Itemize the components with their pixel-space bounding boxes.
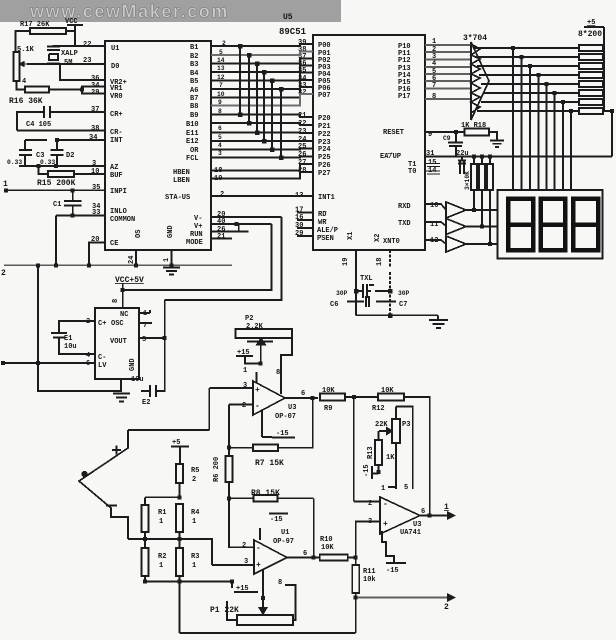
svg-text:UA741: UA741: [400, 529, 421, 537]
wire R9 to R12: [345, 396, 378, 398]
segment drop wire 8: [570, 111, 572, 190]
resistor R11 body: [352, 565, 359, 593]
resistor pack 8*200 bodies: [579, 45, 603, 114]
VOUT vertical down to E2: [156, 338, 165, 391]
svg-text:B4: B4: [190, 70, 198, 78]
ground R18: [490, 141, 504, 148]
wiper to crystal wire: [27, 63, 47, 65]
wire LV pin6 row: [3, 362, 95, 364]
UA741 pin4 to -15: [382, 531, 394, 563]
svg-text:VR1: VR1: [110, 85, 123, 93]
svg-text:X2: X2: [374, 234, 382, 242]
+15 bar P1: [232, 582, 258, 593]
node 2 arrowhead: [448, 595, 454, 601]
svg-text:RESET: RESET: [383, 129, 404, 137]
bridge body: [79, 430, 128, 539]
svg-text:C-: C-: [98, 354, 106, 362]
resistor R18 body: [465, 129, 490, 136]
bottom rail: [180, 632, 356, 634]
ADC left pin numbers: [83, 41, 100, 244]
svg-text:P22: P22: [318, 131, 331, 139]
op-amp UA741 triangle: [380, 497, 420, 534]
svg-text:P17: P17: [398, 93, 411, 101]
svg-text:8: 8: [278, 579, 282, 587]
pin1 pin7 stubs: [139, 310, 152, 323]
ADC pin1 gnd stub: [171, 250, 173, 266]
svg-text:R6 200: R6 200: [213, 457, 221, 482]
svg-text:R16 36K: R16 36K: [9, 97, 43, 106]
svg-text:18: 18: [214, 167, 222, 175]
bridge output dot: [82, 472, 87, 477]
svg-text:B10: B10: [186, 121, 199, 129]
svg-text:1: 1: [243, 367, 247, 375]
R13 top: [378, 431, 380, 440]
svg-text:-15: -15: [276, 430, 289, 438]
U1 pin2 wire: [229, 498, 254, 547]
capacitor C1: [64, 190, 82, 215]
svg-text:P20: P20: [318, 115, 331, 123]
svg-text:10u: 10u: [64, 343, 77, 351]
ADC pin24 stub: [135, 250, 137, 265]
resistor pack 3x10K bodies: [471, 164, 477, 190]
svg-text:2: 2: [86, 318, 90, 326]
resistor R3 body: [176, 548, 183, 576]
3x10K resistor tops: [474, 157, 490, 165]
svg-text:XALP: XALP: [61, 50, 78, 58]
svg-text:P12: P12: [398, 57, 411, 65]
svg-text:-: -: [256, 544, 261, 553]
svg-text:1: 1: [163, 258, 171, 262]
R15 right wire to BUF: [74, 173, 105, 175]
svg-text:5: 5: [218, 134, 222, 141]
R7 wires: [229, 447, 313, 449]
resistor R16 36K body: [25, 87, 49, 93]
svg-text:R7 15K: R7 15K: [255, 459, 284, 468]
driver input wires P10-P17: [425, 44, 471, 46]
svg-text:STA-US: STA-US: [165, 194, 190, 202]
svg-text:6: 6: [301, 390, 305, 398]
wire VR2+: [60, 64, 105, 80]
wire R16 to VR1/VR0: [49, 87, 105, 94]
wire bridge tap to U1 pin3: [180, 539, 213, 565]
svg-text:+15: +15: [237, 349, 250, 357]
resistor R10 body: [320, 555, 348, 561]
svg-text:VCC+5V: VCC+5V: [115, 276, 144, 285]
svg-text:T0: T0: [408, 168, 416, 176]
svg-text:U1: U1: [111, 45, 119, 53]
resistor R15 200K body: [48, 171, 74, 177]
R10 wires: [287, 557, 356, 559]
bus vertical A6-FCL: [280, 89, 282, 158]
svg-text:22K: 22K: [375, 421, 388, 429]
potentiometer 5.1K body: [14, 52, 20, 81]
svg-text:2: 2: [192, 476, 196, 484]
svg-text:30P: 30P: [398, 290, 410, 297]
P3 wiper arrow: [379, 430, 387, 432]
U1 pin4 down: [262, 570, 264, 598]
+5 supply bridge: [171, 447, 189, 465]
svg-text:3: 3: [244, 558, 248, 566]
crystal TXL body: [356, 284, 374, 298]
ADC U4 body: [105, 41, 211, 250]
svg-text:2: 2: [1, 269, 6, 278]
svg-text:B9: B9: [190, 112, 198, 120]
segment wire junction dots: [511, 46, 573, 113]
svg-text:R1: R1: [158, 509, 166, 517]
svg-text:3: 3: [218, 150, 222, 157]
VOUT vertical to V- bracket: [164, 300, 166, 338]
svg-text:6: 6: [303, 550, 307, 558]
svg-text:R5: R5: [191, 467, 199, 475]
svg-text:V+: V+: [194, 223, 202, 231]
P1 left end: [227, 601, 237, 620]
svg-text:8: 8: [276, 369, 280, 377]
svg-text:AZ: AZ: [110, 164, 118, 172]
XTAL1 wire: [389, 250, 391, 315]
labels top-left: [1, 18, 144, 285]
ground bus node2: [4, 264, 232, 266]
U1 pin7 to -15: [259, 528, 261, 540]
resistor R1 body: [142, 505, 149, 532]
svg-text:89C51: 89C51: [279, 27, 307, 37]
wire VOUT pin5: [139, 337, 165, 339]
wire C- pin4: [59, 341, 95, 354]
inverter U6c: [425, 236, 497, 252]
wire B3 to P02: [211, 59, 313, 64]
svg-text:21: 21: [217, 233, 225, 241]
svg-text:19: 19: [214, 175, 222, 183]
U3 output wire: [285, 397, 318, 399]
svg-text:TXD: TXD: [398, 220, 411, 228]
svg-text:-15: -15: [363, 464, 371, 477]
svg-text:R13: R13: [367, 446, 375, 459]
svg-text:MODE: MODE: [186, 239, 203, 247]
svg-text:-15: -15: [270, 516, 283, 524]
svg-text:1: 1: [143, 310, 147, 318]
svg-text:P07: P07: [318, 92, 331, 100]
svg-text:R4: R4: [191, 509, 199, 517]
svg-text:TXL: TXL: [360, 275, 373, 283]
segment drop wire 7: [562, 102, 564, 190]
7-seg digit 2: [541, 199, 566, 251]
-15 bar UA741: [386, 562, 406, 564]
svg-text:INT1: INT1: [318, 194, 335, 202]
svg-text:3: 3: [243, 382, 247, 390]
svg-text:RD: RD: [318, 211, 326, 219]
P3 top wire: [396, 407, 413, 490]
svg-text:B7: B7: [190, 95, 198, 103]
MCU U5 body: [313, 35, 425, 250]
bottom row wire: [145, 576, 232, 582]
capacitor C9: [448, 132, 463, 157]
svg-text:LV: LV: [98, 362, 107, 370]
svg-text:10k: 10k: [363, 576, 376, 584]
junction dots left area: [4, 88, 174, 293]
svg-text:INLO: INLO: [110, 208, 127, 216]
svg-text:WR: WR: [318, 219, 327, 227]
svg-text:CE: CE: [110, 240, 118, 248]
driver array 3*704: [471, 42, 489, 120]
svg-text:ALE/P: ALE/P: [317, 227, 338, 235]
svg-text:VCC: VCC: [65, 18, 78, 26]
segment drop wire 3: [529, 66, 531, 190]
svg-text:E11: E11: [186, 130, 199, 138]
mid row wires: [128, 532, 180, 548]
svg-text:BUF: BUF: [110, 172, 123, 180]
bus vertical B4-E12: [263, 72, 265, 141]
svg-text:10u: 10u: [131, 376, 144, 384]
svg-text:-: -: [383, 500, 388, 509]
R7 feedback vertical: [307, 398, 313, 448]
svg-text:2: 2: [220, 191, 224, 199]
svg-text:R15 200K: R15 200K: [37, 179, 76, 188]
svg-text:6: 6: [86, 360, 90, 368]
capacitor D2 0.33: [51, 140, 64, 166]
P1 right end: [285, 585, 296, 620]
long wire to -in: [354, 397, 380, 502]
R15 left wire: [39, 166, 49, 174]
svg-text:0.33: 0.33: [40, 159, 55, 166]
reset circuit: [425, 129, 504, 157]
svg-text:22u: 22u: [456, 150, 469, 158]
svg-text:D0: D0: [111, 63, 119, 71]
ADC MODE stub: [211, 238, 232, 240]
svg-text:VR0: VR0: [110, 93, 123, 101]
U1 pin3 wire: [212, 564, 254, 566]
svg-text:B8: B8: [190, 103, 198, 111]
svg-text:HBEN: HBEN: [173, 169, 190, 177]
svg-text:LBEN: LBEN: [173, 177, 190, 185]
-15 bar U3: [272, 437, 295, 439]
potentiometer P1 body: [237, 615, 293, 625]
7-seg digit 3: [573, 199, 598, 251]
R11 bottom: [355, 593, 357, 633]
svg-text:R10: R10: [320, 536, 333, 544]
svg-text:VOUT: VOUT: [110, 338, 127, 346]
svg-text:P21: P21: [318, 123, 331, 131]
svg-text:0.33: 0.33: [7, 159, 22, 166]
wire E11 to P22: [211, 132, 313, 135]
7-seg digit 1: [508, 199, 533, 251]
potentiometer wiper arrow: [22, 63, 28, 65]
MCU misc left labels: [317, 194, 355, 243]
pot bottom to R16: [17, 81, 26, 90]
svg-text:RUN: RUN: [190, 231, 203, 239]
svg-text:-15: -15: [386, 567, 399, 575]
capacitor C4 105: [17, 106, 105, 131]
svg-text:B5: B5: [190, 78, 198, 86]
svg-text:R12: R12: [372, 405, 385, 413]
wire B2 to P01: [211, 52, 313, 56]
svg-text:U1: U1: [281, 529, 289, 537]
op-amp U3 triangle: [253, 381, 285, 415]
bridge top wire: [128, 388, 209, 430]
svg-text:C1: C1: [53, 201, 61, 209]
R8 feedback vertical: [313, 498, 315, 557]
svg-text:U3: U3: [413, 521, 421, 529]
capacitor E1 10u: [51, 333, 67, 341]
svg-text:CR+: CR+: [110, 111, 123, 119]
svg-text:P26: P26: [318, 162, 331, 170]
R13 bottom to -15: [372, 465, 379, 479]
svg-text:GND: GND: [167, 225, 175, 238]
svg-text:1: 1: [381, 485, 385, 493]
svg-text:1: 1: [444, 503, 449, 512]
svg-text:B2: B2: [190, 53, 198, 61]
bus vertical B3-E11: [256, 64, 258, 133]
svg-text:C9: C9: [443, 135, 451, 142]
svg-text:12: 12: [430, 237, 438, 245]
P3 bottom wire: [388, 443, 396, 489]
svg-text:RXD: RXD: [398, 203, 411, 211]
U3 pin1 stub: [256, 372, 258, 383]
svg-text:+5: +5: [172, 439, 180, 447]
bus vertical B1-B9: [239, 46, 241, 115]
segment drop wire 1: [512, 48, 514, 190]
svg-text:P24: P24: [318, 146, 331, 154]
ADC V+ wire: [211, 223, 272, 225]
R12 right feedback: [404, 397, 430, 516]
MCU right column labels: [374, 43, 416, 246]
svg-text:GND: GND: [129, 358, 137, 371]
svg-text:+: +: [256, 561, 261, 570]
svg-text:R3: R3: [191, 553, 199, 561]
svg-text:D2: D2: [66, 152, 74, 160]
node 1 arrowhead: [448, 513, 454, 519]
wiper junction to +15: [245, 345, 261, 364]
svg-text:13: 13: [217, 65, 225, 72]
capacitor E2 10u: [141, 385, 156, 397]
svg-text:1: 1: [3, 180, 8, 189]
7660 pin3 gnd stub: [120, 379, 122, 392]
wire B10 to P21: [211, 123, 313, 125]
svg-text:2: 2: [242, 542, 246, 550]
svg-text:C6: C6: [330, 301, 338, 309]
svg-text:P1 22K: P1 22K: [210, 606, 239, 615]
V+ routing bracket: [123, 224, 272, 290]
VCC symbol: [67, 25, 83, 46]
svg-text:6: 6: [421, 508, 425, 516]
wire R18 to gnd: [489, 132, 497, 140]
wire INPI node1 row: [6, 189, 105, 191]
svg-text:+5: +5: [587, 19, 595, 27]
svg-text:R11: R11: [363, 568, 376, 576]
svg-text:CR-: CR-: [110, 129, 123, 137]
resistor R7 15K body: [253, 445, 278, 452]
svg-text:C4 105: C4 105: [26, 121, 51, 129]
wire A6 to P05: [211, 80, 313, 89]
wire VCC down to pin8: [122, 283, 124, 308]
resistor R12 body: [378, 394, 404, 401]
ADC left-side pin labels: [110, 45, 175, 248]
wire INT row: [25, 139, 105, 141]
resistor pack right wires: [603, 48, 604, 111]
svg-text:4: 4: [218, 142, 222, 149]
svg-text:NC: NC: [120, 311, 128, 319]
wire STA-US to INT1: [211, 195, 313, 197]
segment drop wire 4: [538, 75, 540, 190]
svg-text:B3: B3: [190, 61, 198, 69]
MCU left column labels P20-P27: [318, 115, 331, 178]
ADC right-side pin labels: [165, 44, 203, 247]
capacitor C6: [347, 296, 369, 307]
wire CR- loop bottom: [17, 130, 105, 132]
svg-text:P00: P00: [318, 42, 331, 50]
ADC right output pin numbers: [217, 40, 226, 157]
R6 wires: [228, 448, 230, 498]
svg-text:OR: OR: [190, 147, 199, 155]
wire CE: [89, 243, 105, 266]
svg-text:30P: 30P: [336, 290, 348, 297]
svg-text:+15: +15: [236, 585, 249, 593]
svg-text:-: -: [255, 402, 260, 411]
wire crystal right to XTAL1: [375, 290, 390, 292]
junction dots between chips: [235, 44, 284, 226]
svg-text:PSEN: PSEN: [317, 235, 334, 243]
svg-text:EA/UP: EA/UP: [380, 153, 401, 161]
U3 pin2 feedback vertical: [228, 405, 230, 448]
bus vertical B5-OR: [271, 81, 273, 150]
svg-text:X1: X1: [347, 232, 355, 240]
segment drop wire 6: [554, 93, 556, 190]
capacitor C3 0.33: [19, 140, 32, 166]
wire caps bottom row to AZ pin: [19, 165, 105, 167]
watermark bar: [0, 0, 341, 22]
P2 wiper: [247, 341, 273, 343]
svg-text:R9: R9: [324, 405, 332, 413]
svg-text:OS: OS: [135, 230, 143, 238]
MCU misc pin numbers: [295, 131, 438, 266]
svg-text:P2: P2: [245, 315, 253, 323]
driver output wires to resistor pack: [473, 47, 579, 49]
svg-text:B1: B1: [190, 44, 198, 52]
inverter output dots: [472, 109, 614, 246]
wire V+ tap to RUN row: [238, 224, 240, 232]
svg-text:FCL: FCL: [186, 155, 199, 163]
capacitor 22u: [458, 157, 466, 175]
svg-text:8*200: 8*200: [578, 30, 602, 39]
svg-text:www.cewMaker.com: www.cewMaker.com: [29, 2, 229, 22]
+15 supply U3: [236, 355, 253, 357]
svg-text:40: 40: [217, 218, 225, 226]
+in wire pin3: [356, 522, 380, 566]
ground symbol E2: [113, 394, 130, 402]
-15 bar U1: [269, 513, 288, 515]
resistor R6 200 body: [226, 456, 233, 482]
XTAL2 wire: [355, 250, 357, 315]
svg-text:OP-07: OP-07: [275, 413, 296, 421]
ground under ADC: [163, 268, 180, 275]
ADC pin stub numbers (V-/V+/RUN/MODE): [214, 167, 225, 241]
wire HBEN: [211, 164, 313, 171]
wire B1 to P00: [211, 44, 313, 46]
left vertical bus-to-gnd: [38, 265, 121, 391]
svg-text:2: 2: [242, 402, 246, 410]
svg-text:3×10K: 3×10K: [464, 171, 471, 190]
wire INLO row: [56, 216, 105, 266]
wire LBEN: [211, 172, 313, 179]
svg-text:2: 2: [444, 603, 449, 612]
ADC RUN stub: [211, 231, 249, 233]
svg-text:19: 19: [342, 258, 350, 266]
svg-text:P25: P25: [318, 154, 331, 162]
svg-text:V-: V-: [194, 215, 202, 223]
svg-text:1: 1: [159, 562, 163, 570]
svg-text:8: 8: [112, 299, 120, 303]
R5 bottom: [179, 483, 181, 497]
svg-text:3*704: 3*704: [463, 34, 487, 43]
wire U3 +in (pin3): [209, 387, 253, 389]
